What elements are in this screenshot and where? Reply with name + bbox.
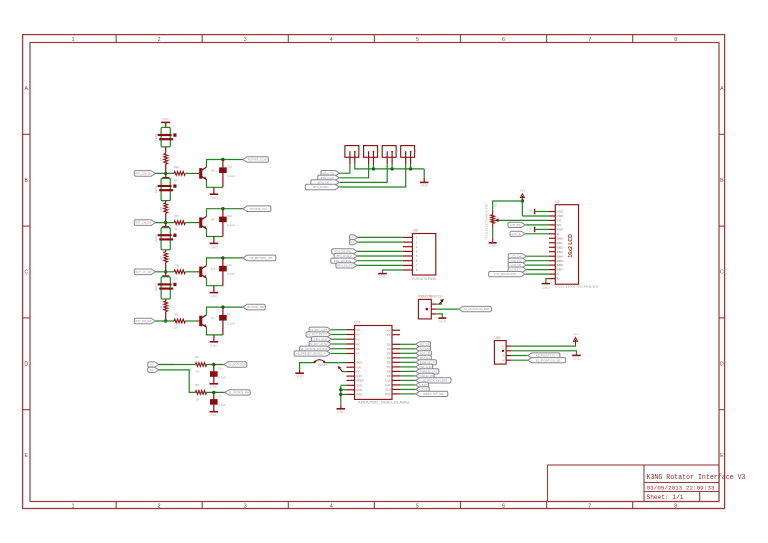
svg-text:C: C <box>24 270 28 276</box>
svg-text:GND: GND <box>162 118 170 122</box>
wire pin5 <box>357 255 403 257</box>
svg-text:C8: C8 <box>218 367 222 371</box>
wire S3 to flag <box>339 164 387 182</box>
pin 5 U$1 <box>403 255 413 257</box>
ground <box>213 187 215 194</box>
svg-text:D10: D10 <box>385 379 391 383</box>
pin D2 U?1 <box>392 343 400 345</box>
svg-text:UP: UP <box>351 236 355 240</box>
svg-text:Sheet: 1/1: Sheet: 1/1 <box>647 494 684 501</box>
flag EL_ROTATE_DN_SW <box>300 346 331 351</box>
flag ROT_CW <box>416 342 431 347</box>
svg-text:0.1uF: 0.1uF <box>227 321 235 325</box>
svg-text:GND: GND <box>379 275 387 279</box>
svg-text:1K: 1K <box>196 370 200 374</box>
wire VO to pot wiper <box>499 219 549 221</box>
svg-text:0.1uF: 0.1uF <box>218 403 226 407</box>
wire A5 <box>331 353 347 355</box>
svg-text:A5: A5 <box>356 352 360 356</box>
pin 1 remote-switch <box>431 303 436 305</box>
node collector-cap junction <box>221 305 224 308</box>
node el junction <box>212 391 215 394</box>
svg-text:0.1uF: 0.1uF <box>227 272 235 276</box>
svg-text:EL_ROT_UP_SW: EL_ROT_UP_SW <box>310 342 328 346</box>
svg-text:S1: S1 <box>358 149 362 153</box>
svg-text:A0: A0 <box>356 328 360 332</box>
svg-text:EL_ROTATE_PIN: EL_ROTATE_PIN <box>229 391 249 395</box>
flag BTN_CCW_P <box>334 253 357 258</box>
transistor Q5 <box>199 168 202 179</box>
flag LCD_EN2 <box>416 387 430 392</box>
svg-text:LED3: LED3 <box>154 235 158 242</box>
resistor R6 <box>174 319 185 323</box>
svg-text:R2: R2 <box>195 355 199 359</box>
resistor R7 <box>165 299 167 301</box>
wire collector <box>207 160 243 168</box>
svg-text:DB5: DB5 <box>557 259 563 263</box>
svg-text:A1: A1 <box>356 333 360 337</box>
pin DB2 U2 <box>549 246 555 248</box>
svg-text:DB2: DB2 <box>557 245 563 249</box>
pin A2 U?1 <box>347 338 355 340</box>
pin RES U?1 <box>347 362 355 364</box>
svg-text:R7: R7 <box>159 305 163 309</box>
svg-text:R10: R10 <box>174 165 180 169</box>
transistor Q4 <box>199 217 202 228</box>
pin VIN U?1 <box>347 366 355 368</box>
svg-text:AREF: AREF <box>356 379 364 383</box>
led pair LED3 <box>161 228 170 250</box>
svg-text:B: B <box>720 178 724 184</box>
flag LCD_D7 <box>508 267 526 272</box>
pin 2 remote-switch <box>431 308 436 310</box>
svg-text:D: D <box>720 361 724 367</box>
svg-text:AZ_ROTATE_UP: AZ_ROTATE_UP <box>250 256 272 260</box>
svg-text:VIN: VIN <box>356 365 361 369</box>
svg-text:R3: R3 <box>159 157 163 161</box>
wire to junction <box>207 364 224 366</box>
svg-text:5: 5 <box>416 37 419 43</box>
flag LCD_D4 <box>508 254 526 259</box>
svg-text:LED1: LED1 <box>154 133 158 140</box>
svg-text:ROTATE_CCW: ROTATE_CCW <box>248 158 267 162</box>
svg-text:VDD: VDD <box>557 214 564 218</box>
flag AZ_POS_SENSE <box>311 337 331 342</box>
wire pin8 to ground <box>383 270 403 273</box>
pin VO U2 <box>549 219 555 221</box>
wire az <box>159 364 174 366</box>
flag AZ_POSITION <box>528 353 560 358</box>
svg-text:GND: GND <box>210 245 218 249</box>
wire 5V pin <box>342 371 347 373</box>
svg-text:SWITCH: SWITCH <box>430 294 443 298</box>
pin 2 U$5 <box>506 350 511 352</box>
flag PWM_AZ_DN <box>416 364 433 369</box>
svg-text:R/W: R/W <box>557 228 563 232</box>
wire collector <box>207 307 243 315</box>
resistor R2 <box>195 363 206 367</box>
svg-text:5V: 5V <box>356 370 360 374</box>
capacitor C12 <box>222 209 224 237</box>
wire junction-to-led LED2 <box>165 173 167 177</box>
svg-text:D: D <box>24 361 28 367</box>
svg-text:4: 4 <box>330 37 333 43</box>
ground <box>299 370 301 373</box>
supply +5V <box>439 300 443 304</box>
svg-text:GND: GND <box>356 388 362 392</box>
svg-text:D2: D2 <box>387 342 391 346</box>
svg-text:+5V: +5V <box>519 189 526 193</box>
wire S4 to gnd bus <box>410 164 412 169</box>
ground <box>576 354 578 356</box>
svg-text:03/05/2013 22:09:33: 03/05/2013 22:09:33 <box>647 484 715 491</box>
switch S3 <box>382 146 396 158</box>
svg-text:RESET: RESET <box>318 363 327 367</box>
wire pin2 <box>436 308 459 310</box>
ground <box>423 178 425 183</box>
wire D12 <box>400 388 416 390</box>
wire collector <box>207 258 243 266</box>
svg-text:LCD_E: LCD_E <box>512 232 521 236</box>
svg-text:R5: R5 <box>195 383 199 387</box>
node bus junction S3 <box>390 167 393 170</box>
svg-text:D3: D3 <box>387 347 391 351</box>
svg-text:3: 3 <box>244 37 247 43</box>
flag LCD_D6 <box>508 263 526 268</box>
svg-text:DB0: DB0 <box>557 236 563 240</box>
pin 1 U$5 <box>506 345 511 347</box>
svg-text:U?1: U?1 <box>355 321 361 325</box>
flag EL_POSITION_OUT <box>225 390 250 395</box>
switch S2 <box>364 146 378 158</box>
flag LCD_E <box>510 231 525 236</box>
wire S1 to gnd bus <box>355 164 424 169</box>
wire pin2 to ground <box>511 351 577 355</box>
pin A4 U?1 <box>347 348 355 350</box>
svg-text:DB4: DB4 <box>557 254 563 258</box>
wire DB4 <box>526 255 549 257</box>
ground <box>382 272 384 275</box>
flag EL_ROT_UP_SW <box>309 341 331 346</box>
wire RS <box>525 224 549 226</box>
svg-text:R8: R8 <box>175 263 179 267</box>
flag EL_IN <box>148 367 159 372</box>
svg-text:D13: D13 <box>385 392 391 396</box>
svg-text:4: 4 <box>330 504 333 510</box>
pin GND U?1 <box>347 384 355 386</box>
flag ROTATE_CW <box>243 206 271 212</box>
ground <box>213 237 215 244</box>
svg-text:A3: A3 <box>356 342 360 346</box>
svg-text:ROT_UP_SW: ROT_UP_SW <box>135 270 151 274</box>
pin A5 U?1 <box>347 353 355 355</box>
pin 3 U$1 <box>403 246 413 248</box>
wire E <box>525 233 549 235</box>
wire el <box>159 370 196 393</box>
svg-text:EL_POSITION_SE: EL_POSITION_SE <box>536 358 560 362</box>
svg-text:S2: S2 <box>376 149 380 153</box>
flag BTN_CW_PNL <box>332 249 358 254</box>
wire base <box>185 172 196 174</box>
svg-text:AZ_ROTATION_BRK: AZ_ROTATION_BRK <box>464 307 490 311</box>
wire R/W to gnd tap <box>536 228 549 230</box>
wire DB5 <box>526 260 549 262</box>
wire A2 <box>332 338 347 340</box>
transistor Q3 <box>199 267 202 278</box>
svg-text:D6: D6 <box>387 360 391 364</box>
node pin2 dot <box>426 308 429 311</box>
node gnd junction 2 <box>339 393 342 396</box>
svg-text:C12: C12 <box>227 214 233 218</box>
flag AZ_ROTATE_UP <box>243 255 276 261</box>
svg-text:D7: D7 <box>387 365 391 369</box>
svg-text:7: 7 <box>588 37 591 43</box>
pin 7 U$1 <box>403 264 413 266</box>
node stage3 input junction <box>164 270 167 273</box>
node collector-cap junction <box>221 256 224 259</box>
ground <box>489 242 497 244</box>
supply GND tap R/W <box>534 227 536 233</box>
svg-text:0.1uF: 0.1uF <box>227 174 235 178</box>
svg-text:GND: GND <box>489 244 497 248</box>
svg-text:EL_ROTATE_DN_SW: EL_ROTATE_DN_SW <box>301 347 327 351</box>
pin DB0 U2 <box>549 237 555 239</box>
flag BTN_UP <box>311 180 340 185</box>
svg-text:GND: GND <box>337 410 345 414</box>
ground <box>340 405 342 408</box>
svg-text:1k: 1k <box>174 178 178 182</box>
wire A1 <box>331 334 347 336</box>
wire bus to ground <box>423 169 425 178</box>
svg-text:E: E <box>557 232 559 236</box>
svg-text:AZ_PRESET_SENSE_A: AZ_PRESET_SENSE_A <box>296 352 326 356</box>
svg-text:GND: GND <box>210 295 218 299</box>
flag AZ_ROT_LEFT <box>309 327 331 332</box>
flag AZ_POSITION_OUT <box>224 362 247 367</box>
svg-text:K3NG Rotator Interface V3: K3NG Rotator Interface V3 <box>647 474 746 482</box>
svg-text:GND: GND <box>210 385 218 389</box>
wire +5V to VDD <box>521 201 523 216</box>
svg-text:ROTATE_DN: ROTATE_DN <box>247 305 264 309</box>
svg-text:1k: 1k <box>174 227 178 231</box>
pin 8 U$1 <box>403 269 413 271</box>
capacitor C11 <box>222 258 224 286</box>
wire emitter <box>207 278 223 286</box>
resistor R5 <box>165 250 167 252</box>
node pin2 dot <box>502 350 504 352</box>
wire emitter <box>207 327 223 335</box>
pin 3 remote-switch <box>431 313 436 315</box>
resistor R5 <box>195 391 206 395</box>
svg-text:U2: U2 <box>555 200 559 204</box>
led pair LED1 <box>161 127 170 146</box>
svg-text:LCD_BACKLIGHT: LCD_BACKLIGHT <box>494 272 517 276</box>
node bus junction S4 <box>409 167 412 170</box>
pin D4 U?1 <box>392 352 400 354</box>
svg-text:D9: D9 <box>387 374 391 378</box>
pin D5 U?1 <box>392 357 400 359</box>
wire +5V to pot <box>493 201 523 210</box>
svg-text:RES: RES <box>356 361 362 365</box>
flag BTN_CCW <box>318 175 340 180</box>
pin DB4 U2 <box>549 255 555 257</box>
node +5V junction <box>521 199 524 202</box>
capacitor C7 <box>213 392 215 411</box>
svg-text:+5V: +5V <box>572 333 579 337</box>
wire input <box>155 172 174 174</box>
node collector-cap junction <box>221 207 224 210</box>
wire emitter <box>207 180 223 188</box>
svg-text:C9: C9 <box>227 312 231 316</box>
svg-text:GND: GND <box>210 344 218 348</box>
resistor R4 <box>165 201 167 203</box>
svg-text:BTN_DN_PN: BTN_DN_PN <box>337 264 353 268</box>
svg-text:U$1: U$1 <box>413 228 419 232</box>
node stage2 input junction <box>164 221 167 224</box>
svg-text:1k: 1k <box>174 326 178 330</box>
node stage4 input junction <box>164 319 167 322</box>
pin DB1 U2 <box>549 242 555 244</box>
svg-text:LED4: LED4 <box>154 284 158 291</box>
svg-text:Q3: Q3 <box>211 267 215 271</box>
pin VDD U2 <box>549 215 555 217</box>
pin DB7 U2 <box>549 269 555 271</box>
wire D11 <box>400 384 416 386</box>
resistor R9 <box>174 221 185 225</box>
supply +5V <box>521 196 523 201</box>
node az junction <box>212 363 215 366</box>
flag ROT_CW_SW <box>134 220 155 226</box>
svg-text:DB6: DB6 <box>557 263 563 267</box>
switch S1 <box>345 146 359 158</box>
svg-text:6: 6 <box>502 37 505 43</box>
svg-text:B: B <box>24 178 28 184</box>
flag AZ_ROTATION_BRAKE <box>459 306 492 311</box>
supply GND tap VSS <box>534 209 536 215</box>
svg-text:Q1: Q1 <box>211 316 215 320</box>
svg-text:LCD-16X2-INCHOLES: LCD-16X2-INCHOLES <box>555 285 598 289</box>
pin RX U?1 <box>392 329 400 331</box>
pin A U2 <box>549 273 555 275</box>
svg-text:GND: GND <box>356 393 362 397</box>
wire pin3 to ground <box>436 314 442 317</box>
ground <box>213 286 215 293</box>
svg-text:GND: GND <box>542 286 550 290</box>
node collector-cap junction <box>221 158 224 161</box>
pin DB3 U2 <box>549 251 555 253</box>
flag ROTATE_CCW <box>243 157 268 163</box>
wire pin1 to +5V <box>511 345 576 347</box>
svg-text:AZ_ROT_RIGHT: AZ_ROT_RIGHT <box>307 333 327 337</box>
svg-text:GND: GND <box>420 184 428 188</box>
wire pin4 <box>511 359 528 361</box>
svg-text:R9: R9 <box>175 214 179 218</box>
resistor R10 <box>174 172 185 176</box>
svg-text:SPEED_POT_SW: SPEED_POT_SW <box>423 392 444 396</box>
svg-text:GND: GND <box>528 208 532 214</box>
svg-text:A: A <box>24 86 28 92</box>
svg-text:8: 8 <box>674 37 677 43</box>
svg-text:E: E <box>720 453 724 459</box>
svg-text:PUSH-BTN-PANEL: PUSH-BTN-PANEL <box>413 277 438 281</box>
flag BTN_UP_PNL <box>331 258 357 263</box>
svg-text:R6: R6 <box>175 313 179 317</box>
flag ROTATE_DN <box>243 304 265 310</box>
flag LCD_EN1 <box>416 382 429 387</box>
svg-text:0.1uF: 0.1uF <box>227 223 235 227</box>
pin 3 U$5 <box>506 355 511 357</box>
pin A1 U?1 <box>347 334 355 336</box>
svg-text:TYCO_ELECTRONICS_POT: TYCO_ELECTRONICS_POT <box>485 203 489 240</box>
flag AZ_ROTATION_BRK <box>416 378 451 383</box>
svg-text:RS: RS <box>557 223 561 227</box>
wire pin1 to +5V <box>436 302 441 305</box>
pin D7 U?1 <box>392 366 400 368</box>
wire D5 <box>400 357 416 359</box>
wire D8 <box>400 370 416 372</box>
pin 3.3V U?1 <box>347 375 355 377</box>
pin D3 U?1 <box>392 348 400 350</box>
flag ROT_DN_SW <box>134 318 155 324</box>
svg-text:1K: 1K <box>196 397 200 401</box>
pin D6 U?1 <box>392 361 400 363</box>
wire junction-to-led LED3 <box>165 223 167 227</box>
pin D12 U?1 <box>392 388 400 390</box>
svg-text:6: 6 <box>502 504 505 510</box>
wire A0 <box>331 329 347 331</box>
flag ROT_CCW_SW <box>134 171 155 177</box>
wire D7 <box>400 366 416 368</box>
flag DN <box>350 240 358 245</box>
wire base <box>185 271 196 273</box>
wire D3 <box>400 348 416 350</box>
pin K U2 <box>549 278 555 280</box>
flag ROT_CCW <box>416 346 431 351</box>
svg-text:D4: D4 <box>387 351 391 355</box>
flag PWM_EL_DN <box>416 373 434 378</box>
svg-text:16x2 LCD: 16x2 LCD <box>568 234 574 258</box>
svg-text:ARDUINO_SHIELDLABEL: ARDUINO_SHIELDLABEL <box>358 401 411 405</box>
wire D9 <box>400 375 416 377</box>
svg-text:AZ_ROT_LEFT: AZ_ROT_LEFT <box>310 328 327 332</box>
svg-text:ROT_DN_SW: ROT_DN_SW <box>135 319 151 323</box>
svg-text:GND: GND <box>438 319 446 323</box>
flag EL_POSITION_SENSE <box>528 358 566 363</box>
svg-text:GND: GND <box>356 383 362 387</box>
wire reset <box>324 362 346 364</box>
pin AREF U?1 <box>347 379 355 381</box>
flag AZ_ROT_RIGHT <box>306 332 331 337</box>
wire D2 <box>400 343 416 345</box>
pin E U2 <box>549 233 555 235</box>
svg-text:3: 3 <box>244 504 247 510</box>
wire input <box>155 271 174 273</box>
svg-text:GND: GND <box>296 374 304 378</box>
svg-text:5: 5 <box>416 504 419 510</box>
pin 1 U$1 <box>403 236 413 238</box>
wire D13 <box>400 393 416 395</box>
svg-text:C: C <box>720 270 724 276</box>
svg-text:DB3: DB3 <box>557 250 563 254</box>
svg-text:LED2: LED2 <box>154 186 158 193</box>
pin 4 U$1 <box>403 250 413 252</box>
svg-text:GND: GND <box>573 357 581 361</box>
svg-text:RX: RX <box>386 328 390 332</box>
flag BTN_DN_PN <box>336 263 357 268</box>
wire pin2 <box>358 241 403 243</box>
node bus junction S2 <box>372 167 375 170</box>
flag UP <box>350 235 358 240</box>
